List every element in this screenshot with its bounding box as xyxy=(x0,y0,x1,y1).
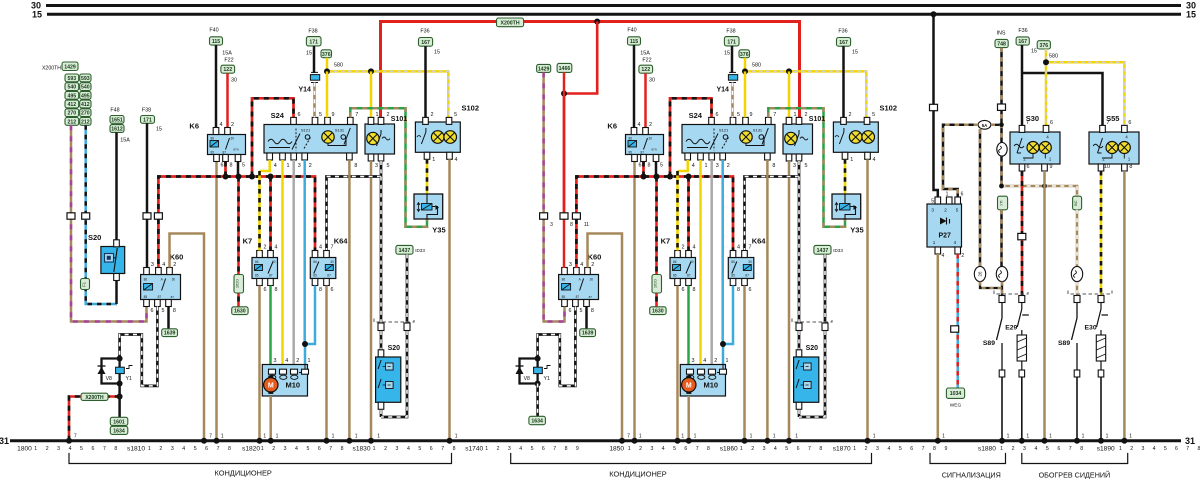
S20 boundary pin left xyxy=(378,323,384,331)
S102 lamp right #2 xyxy=(862,131,875,144)
wire yellow/black S102 pin1 to Y35 xyxy=(426,159,429,194)
relay K6 pin 8 xyxy=(223,155,229,162)
svg-text:1: 1 xyxy=(1000,446,1003,452)
S24 pin 9 top xyxy=(325,117,331,124)
node Y1 top junction #2 xyxy=(535,356,541,362)
svg-text:5: 5 xyxy=(785,446,788,452)
svg-text:4: 4 xyxy=(703,358,706,364)
svg-text:1634: 1634 xyxy=(113,428,125,434)
svg-text:495: 495 xyxy=(68,93,77,99)
relay K60 pin 5 #2 xyxy=(573,300,579,307)
relay K6 pin 5 xyxy=(235,155,241,162)
svg-text:1612: 1612 xyxy=(111,127,123,133)
connector 167 xyxy=(419,38,433,47)
svg-text:2: 2 xyxy=(751,446,754,452)
switch S101 xyxy=(365,124,395,154)
svg-text:1620: 1620 xyxy=(653,278,658,288)
svg-text:7: 7 xyxy=(209,434,212,440)
wire Y14 to S24 pin5 brown/white #2 xyxy=(731,83,734,118)
svg-text:86: 86 xyxy=(629,137,633,141)
wire yellow/black S102 pin1 to Y35 #2 xyxy=(844,159,847,194)
svg-text:167: 167 xyxy=(1018,39,1027,45)
svg-text:8: 8 xyxy=(453,446,456,452)
wire S89 to rail xyxy=(1001,377,1003,441)
svg-text:5: 5 xyxy=(931,199,934,205)
S89 bottom pin xyxy=(999,370,1005,377)
node blue junction xyxy=(302,341,308,347)
S102 pin 4 bottom xyxy=(447,152,453,159)
relay K60 xyxy=(141,275,181,300)
node K6 pin6 drop on rail 31 #2 xyxy=(632,438,638,444)
relay K6 pin 6 #2 xyxy=(632,155,638,162)
blower motor M10 xyxy=(262,365,307,397)
S24 pin 4 bottom #2 xyxy=(685,153,691,160)
svg-text:M: M xyxy=(268,383,274,390)
wire black/white S101 pin5 down to S20 #2 xyxy=(798,177,801,324)
inline connector on K60 pin4 wire xyxy=(154,213,162,219)
svg-text:4: 4 xyxy=(942,253,945,259)
svg-text:1: 1 xyxy=(795,434,798,440)
node P27 drop on rail xyxy=(935,438,941,444)
svg-text:S131: S131 xyxy=(335,128,345,133)
svg-text:87: 87 xyxy=(171,295,175,299)
wire E30 to rail xyxy=(1100,377,1102,441)
wire K6 pin8 to bus #2 xyxy=(642,162,645,177)
wire yellow S24 pin4 to K7 pin2 xyxy=(260,160,270,171)
svg-text:8: 8 xyxy=(819,446,822,452)
node Y1 top junction xyxy=(117,356,123,362)
fusible link Y14 xyxy=(310,72,319,82)
svg-text:15: 15 xyxy=(32,9,42,19)
svg-text:4: 4 xyxy=(1034,446,1037,452)
wire red/black bus to K7 pin4 #2 xyxy=(687,177,690,251)
connector green vertical on S89-2 feed xyxy=(1073,196,1082,210)
S24 pin 5 top #2 xyxy=(730,117,736,124)
svg-text:1: 1 xyxy=(705,163,708,169)
svg-text:6: 6 xyxy=(910,446,913,452)
svg-text:F40: F40 xyxy=(209,28,218,34)
svg-text:8: 8 xyxy=(570,222,573,228)
wire K60 pin8 to connector 1639 xyxy=(167,307,170,330)
connector 540 right cell xyxy=(80,83,91,91)
svg-text:Y35: Y35 xyxy=(850,226,863,235)
relay K64 assembly xyxy=(310,258,336,279)
svg-text:5: 5 xyxy=(1046,446,1049,452)
wire F48 to S20 top xyxy=(115,132,118,240)
svg-text:K60: K60 xyxy=(588,253,602,262)
svg-text:2: 2 xyxy=(805,112,808,118)
S101 pin 5 bottom xyxy=(378,154,384,161)
node bus K7 pin4 junction xyxy=(268,174,274,180)
svg-text:3: 3 xyxy=(298,163,301,169)
connector 167 #2 xyxy=(837,38,851,47)
wire Y14 to S24 pin5 brown/white xyxy=(313,83,316,118)
svg-text:86: 86 xyxy=(731,260,735,264)
svg-text:1: 1 xyxy=(850,157,853,163)
connector 1612 xyxy=(110,125,124,133)
S24 pin 3 bottom #2 xyxy=(709,153,715,160)
svg-text:85: 85 xyxy=(562,295,566,299)
svg-text:Y14: Y14 xyxy=(717,87,730,94)
wire 167 to S30 pin7 and S55 pin7 xyxy=(1022,45,1103,128)
svg-text:5: 5 xyxy=(531,446,534,452)
svg-text:s1890: s1890 xyxy=(1097,446,1115,453)
svg-text:S24: S24 xyxy=(689,111,703,120)
svg-text:30: 30 xyxy=(690,260,694,264)
wire F40 to K6 pin4 xyxy=(215,45,218,127)
M10 pin 4 xyxy=(280,369,287,374)
connector 1429 #2 xyxy=(537,64,551,72)
bracket air-conditioner 2 xyxy=(511,453,872,464)
wire K60 pin5 to solenoid Y1 #2 xyxy=(538,307,576,386)
svg-text:1: 1 xyxy=(1049,434,1052,440)
S101 pin 5 bottom #2 xyxy=(796,154,802,161)
wire K6 pin6 down to rail xyxy=(215,162,218,441)
connector 495 right cell xyxy=(80,91,91,99)
svg-text:10: 10 xyxy=(1104,164,1110,170)
bracket signalling xyxy=(930,453,1006,464)
svg-text:s1810: s1810 xyxy=(127,446,145,453)
pressure switch S20 #2 xyxy=(794,357,819,402)
svg-text:2: 2 xyxy=(46,446,49,452)
S20 boundary pin left #2 xyxy=(796,323,802,331)
connector 1437 #2 xyxy=(814,245,831,254)
svg-text:7: 7 xyxy=(1026,120,1029,126)
svg-text:8: 8 xyxy=(1129,164,1132,170)
bracket air-conditioner 1 xyxy=(69,453,452,464)
S24 pin 4 bottom xyxy=(267,153,273,160)
connector 167 right xyxy=(1016,37,1029,45)
svg-text:1: 1 xyxy=(1007,434,1010,440)
node blue junction #2 xyxy=(720,341,726,347)
wire SA to 748 wire xyxy=(991,124,1002,126)
valve Y35 #2 xyxy=(832,194,861,219)
relay K6 pin 2 xyxy=(225,128,231,135)
svg-text:122: 122 xyxy=(223,67,232,73)
S20 left bottom pin xyxy=(114,274,120,281)
svg-text:540: 540 xyxy=(68,85,77,91)
connector 122 xyxy=(221,65,235,73)
svg-text:КОНДИЦИОНЕР: КОНДИЦИОНЕР xyxy=(215,469,272,478)
node red feed junction x597 xyxy=(594,19,600,25)
svg-text:4: 4 xyxy=(638,122,641,128)
svg-text:s1740: s1740 xyxy=(465,446,483,453)
wire 376 to yellow bus #2 xyxy=(744,58,747,72)
solenoid Y1 coil xyxy=(116,366,133,374)
S102 pin 2 top #2 xyxy=(841,117,847,124)
wire green/brown S24 pin7 to Y35 #2 xyxy=(768,108,845,227)
S24 pin 5 top xyxy=(312,117,318,124)
node S30 pin9 drop on rail xyxy=(1042,438,1048,444)
S24 pin 1 bottom #2 xyxy=(698,153,704,160)
svg-text:8: 8 xyxy=(565,446,568,452)
wire red/black bus riser to S24 pin6 #2 xyxy=(670,98,712,176)
wire K64 pin6 to rail #2 xyxy=(743,286,746,441)
connector 376 xyxy=(321,50,332,58)
inline connector on red/black #2 xyxy=(572,213,580,219)
svg-text:580: 580 xyxy=(752,63,761,69)
M10 pin 4 #2 xyxy=(698,369,705,374)
wire K7 pin6 to rail xyxy=(258,286,261,441)
connector 1634 xyxy=(110,426,128,434)
svg-text:7: 7 xyxy=(74,434,77,440)
S24 circle S131 #2 xyxy=(759,135,764,140)
svg-text:6: 6 xyxy=(151,308,154,314)
svg-text:4: 4 xyxy=(580,262,583,268)
svg-text:M10: M10 xyxy=(704,381,719,390)
svg-text:7: 7 xyxy=(217,446,220,452)
svg-text:87: 87 xyxy=(589,295,593,299)
inline connector on blue/black wire xyxy=(82,213,90,219)
svg-text:3: 3 xyxy=(763,446,766,452)
wire S102 pin4 to rail xyxy=(448,159,451,440)
wire yellow to S24 pin9 xyxy=(326,71,329,117)
solenoid Y1 coil #2 xyxy=(534,366,551,374)
wire blue S24 pin2 to M10 #2 xyxy=(721,160,724,344)
svg-text:2: 2 xyxy=(849,112,852,118)
relay K60 pin 2 #2 xyxy=(585,268,591,275)
svg-text:1: 1 xyxy=(946,192,949,198)
relay K6 pin 5 #2 xyxy=(653,155,659,162)
connector X200TH label on red feed xyxy=(497,18,524,27)
svg-text:4: 4 xyxy=(692,163,695,169)
svg-text:2: 2 xyxy=(591,262,594,268)
connector 212 left cell xyxy=(65,118,79,126)
relay K6 #2 xyxy=(626,135,664,155)
svg-text:F22: F22 xyxy=(224,58,233,64)
wire brown/magenta from X200TH column to K60 pin6 xyxy=(71,125,147,321)
svg-text:s1880: s1880 xyxy=(978,446,996,453)
wire red/black bus to K60 pin4 #2 xyxy=(575,219,578,268)
inline connector on F38 wire xyxy=(143,213,151,219)
node S101 pin3 drop on rail xyxy=(368,438,374,444)
svg-text:M10: M10 xyxy=(286,381,301,390)
svg-text:167: 167 xyxy=(421,40,430,46)
wire yellow S24 pin4 to K7 pin2 #2 xyxy=(678,160,688,171)
svg-text:2: 2 xyxy=(296,358,299,364)
S20 left top pin xyxy=(114,240,120,247)
connector green vertical on 1630 branch xyxy=(234,275,244,294)
node Y1 bottom junction #2 xyxy=(535,381,541,387)
svg-text:5: 5 xyxy=(162,308,165,314)
S102 pin 4 bottom #2 xyxy=(865,152,871,159)
relay K60 #2 xyxy=(559,275,599,300)
control unit P27 xyxy=(927,204,962,247)
connector 171 #2 xyxy=(724,37,739,46)
switch S30 xyxy=(1010,132,1060,164)
svg-text:580: 580 xyxy=(1049,54,1058,60)
svg-text:1429: 1429 xyxy=(64,64,76,70)
svg-text:8: 8 xyxy=(114,446,117,452)
svg-text:F38: F38 xyxy=(726,29,735,35)
svg-text:15A: 15A xyxy=(640,51,650,57)
wire yellow to S101 pin1 xyxy=(370,71,373,117)
svg-text:270: 270 xyxy=(68,111,77,117)
svg-text:5: 5 xyxy=(660,163,663,169)
wire S24 pin8 to rail #2 xyxy=(766,160,769,441)
oval pass-through on S89-2 feed xyxy=(1071,266,1082,281)
wire K64 pin6 to rail xyxy=(325,286,328,441)
wire Y1 to connectors 1601/1634 xyxy=(118,384,121,418)
svg-text:1034: 1034 xyxy=(950,391,962,397)
svg-text:15: 15 xyxy=(156,127,162,133)
svg-text:5: 5 xyxy=(194,446,197,452)
svg-text:5: 5 xyxy=(1164,446,1167,452)
svg-text:15A: 15A xyxy=(222,51,232,57)
relay K6 pin 6 xyxy=(214,155,220,162)
S102 pin 5 top xyxy=(446,117,452,124)
wire brown/white down to S89-2 xyxy=(1076,210,1079,297)
connector 1437 xyxy=(396,245,413,254)
svg-text:5: 5 xyxy=(805,163,808,169)
diode V8 #2 xyxy=(516,366,524,374)
svg-text:X200TH: X200TH xyxy=(42,66,61,72)
svg-text:1466: 1466 xyxy=(559,66,571,72)
wire grey S24 pin3 to M10 pin2 #2 xyxy=(710,160,713,365)
svg-text:748: 748 xyxy=(997,42,1006,48)
wire SA down to oval 26 xyxy=(979,129,982,266)
wire S30 pin9 to rail xyxy=(1043,171,1046,441)
connector 171 left xyxy=(141,116,155,124)
svg-text:5: 5 xyxy=(737,112,740,118)
wire brown S55 pin8 to rail xyxy=(1123,171,1126,441)
node S101 pin3 drop on rail #2 xyxy=(786,438,792,444)
svg-text:2: 2 xyxy=(497,446,500,452)
svg-text:1: 1 xyxy=(263,434,266,440)
node K60 pin2 drop on rail 31 #2 xyxy=(619,438,625,444)
svg-text:85: 85 xyxy=(629,151,633,155)
svg-text:15: 15 xyxy=(1186,9,1196,19)
wire S89 to rail xyxy=(1076,377,1078,441)
svg-text:2: 2 xyxy=(714,358,717,364)
svg-text:7: 7 xyxy=(696,446,699,452)
svg-text:6: 6 xyxy=(1128,120,1131,126)
svg-text:S89: S89 xyxy=(1058,340,1070,347)
diode V8 xyxy=(98,366,106,374)
svg-text:X200TH: X200TH xyxy=(501,20,520,26)
svg-text:8: 8 xyxy=(173,308,176,314)
node E30 drop on rail xyxy=(1098,438,1104,444)
wire yellow S24 pin1 to M10 pin4 #2 xyxy=(699,160,702,365)
node bus junction at S30 pin9 xyxy=(1042,184,1047,189)
connector F1 label on blue/black wire xyxy=(81,279,90,290)
svg-text:6: 6 xyxy=(961,192,964,198)
svg-text:1: 1 xyxy=(287,163,290,169)
svg-text:1601: 1601 xyxy=(113,419,125,425)
relay K60 pin 8 #2 xyxy=(584,300,590,307)
connector 1630 #2 xyxy=(650,307,666,315)
svg-text:ОБОГРЕВ СИДЕНИЙ: ОБОГРЕВ СИДЕНИЙ xyxy=(1039,471,1111,480)
svg-text:СИГНАЛИЗАЦИЯ: СИГНАЛИЗАЦИЯ xyxy=(942,471,1001,480)
svg-text:5: 5 xyxy=(387,163,390,169)
node 1466 red junction xyxy=(561,91,567,97)
svg-text:7: 7 xyxy=(1186,446,1189,452)
relay K64 assembly #2 xyxy=(728,258,754,279)
svg-text:376: 376 xyxy=(322,52,331,58)
svg-text:3: 3 xyxy=(375,163,378,169)
svg-text:6: 6 xyxy=(318,446,321,452)
svg-text:8: 8 xyxy=(693,287,696,293)
node bus branch 1630 junction #2 xyxy=(654,174,660,180)
inline connector on red #2 xyxy=(560,213,568,219)
rail 31 tick numbers xyxy=(261,446,344,452)
svg-text:2: 2 xyxy=(431,112,434,118)
wire K60 pin2 over to rail #2 xyxy=(588,234,623,441)
svg-text:1: 1 xyxy=(148,446,151,452)
M10 pin 3 #2 xyxy=(687,369,694,374)
wire 171 to Y14 xyxy=(313,46,316,73)
wire S102 pin4 to rail #2 xyxy=(866,159,869,440)
connector boundary seat heating xyxy=(1068,291,1112,295)
svg-text:9: 9 xyxy=(944,446,947,452)
connector green vertical on S89 feed xyxy=(998,196,1008,210)
svg-text:5: 5 xyxy=(306,446,309,452)
connector 171 xyxy=(306,37,321,46)
svg-text:212: 212 xyxy=(68,119,77,125)
wire 167 to S102 pin2 #2 xyxy=(842,46,845,117)
svg-text:3: 3 xyxy=(274,358,277,364)
svg-text:2: 2 xyxy=(1012,446,1015,452)
svg-text:3: 3 xyxy=(396,446,399,452)
relay K6 pin 4 #2 xyxy=(631,128,637,135)
S20 top pin xyxy=(378,350,384,357)
svg-text:1437: 1437 xyxy=(399,248,411,254)
svg-text:4: 4 xyxy=(182,446,185,452)
svg-text:4: 4 xyxy=(774,446,777,452)
S30 pin 6 top xyxy=(1043,125,1049,132)
svg-text:УП: УП xyxy=(999,200,1004,206)
svg-text:S20: S20 xyxy=(88,233,101,242)
svg-text:7: 7 xyxy=(1069,446,1072,452)
svg-text:1: 1 xyxy=(221,434,224,440)
svg-text:30: 30 xyxy=(272,260,276,264)
svg-text:4: 4 xyxy=(285,358,288,364)
wire K60 pin8 to connector 1639 #2 xyxy=(585,307,588,330)
svg-text:F22: F22 xyxy=(642,58,651,64)
M10 pin 1 #2 xyxy=(720,369,727,374)
rail 31 tick numbers xyxy=(34,446,117,452)
svg-text:S101: S101 xyxy=(809,116,825,123)
wire brown/magenta 1429 to K60 pin6 #2 xyxy=(544,72,565,321)
wire green/brown S24 pin7 to Y35 xyxy=(350,108,427,227)
svg-text:1: 1 xyxy=(1026,434,1029,440)
S101 lamp xyxy=(367,132,379,144)
switch unit S24 xyxy=(264,125,357,154)
svg-text:87: 87 xyxy=(576,295,580,299)
svg-text:2: 2 xyxy=(159,446,162,452)
wire green K7 pin8 to M10 xyxy=(269,286,272,365)
svg-text:X200TH: X200TH xyxy=(85,395,104,401)
node S24 pin8 drop on rail #2 xyxy=(764,438,770,444)
svg-text:КОНДИЦИОНЕР: КОНДИЦИОНЕР xyxy=(609,470,666,479)
boundary pin xyxy=(999,296,1005,303)
svg-text:171: 171 xyxy=(143,117,152,123)
S101 pin 3 bottom #2 xyxy=(786,154,792,161)
relay K60 pin 4 xyxy=(156,268,162,275)
svg-text:87: 87 xyxy=(158,295,162,299)
svg-text:5: 5 xyxy=(899,446,902,452)
node bus riser junction xyxy=(249,174,255,180)
node rail15 tap xyxy=(931,11,937,17)
wire SA to P27 pin6 xyxy=(943,125,978,197)
svg-text:2: 2 xyxy=(865,446,868,452)
svg-text:5: 5 xyxy=(80,446,83,452)
svg-text:31: 31 xyxy=(1185,436,1195,446)
svg-text:2: 2 xyxy=(231,122,234,128)
svg-text:86: 86 xyxy=(673,260,677,264)
svg-text:6: 6 xyxy=(221,163,224,169)
node S102 pin4 drop on rail #2 xyxy=(865,438,871,444)
